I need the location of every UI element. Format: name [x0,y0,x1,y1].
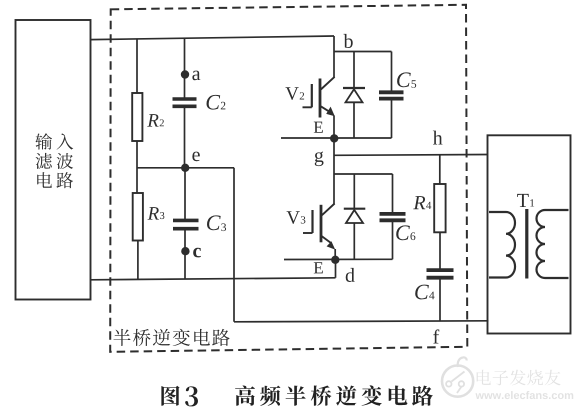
label f [433,329,439,343]
capacitor C3 [173,168,199,280]
freewheel diode of V3 [344,174,366,259]
label g [315,152,324,167]
wire: V3 collector rail [334,173,393,175]
node a junction dot [181,70,189,78]
label C3 [207,215,226,231]
node c junction dot [181,247,189,255]
caption text 图3 高频半桥逆变电路 [161,385,432,406]
label e [192,152,199,162]
transformer T1 secondary winding [537,210,569,278]
label C4 [415,285,434,300]
resistor R2 [132,39,142,193]
resistor R4 [434,155,445,270]
wire: node f line to transformer bottom [234,321,489,322]
transistor V3 (IGBT) [303,204,335,260]
label b [344,34,353,48]
label C6 [396,225,415,240]
wire: node d stub to bottom bus [335,259,337,277]
wire: node b rail [334,51,392,53]
label d [346,268,355,282]
label C5 [397,72,416,87]
transformer T1 core [525,209,528,279]
capacitor C4 [427,270,454,321]
label E (V3 emitter) [314,262,323,273]
label h [433,131,443,145]
capacitor C6 [380,174,406,259]
label a [192,71,200,81]
wire: V2 emitter rail with drive stub [281,137,392,139]
node E of V2 junction dot [330,134,338,142]
wire: node e horizontal link [137,167,234,169]
wire: node g to node h line to transformer [334,154,488,157]
label R2 [147,114,164,126]
label C2 [207,95,226,110]
half-bridge inverter dashed enclosure [110,5,467,352]
label R3 [147,207,164,219]
capacitor C5 [379,52,404,139]
label c [193,248,201,258]
label R4 [413,196,431,209]
node d junction dot [331,256,339,264]
freewheel diode of V2 [343,52,365,139]
wire: midpoint link V2 emitter to V3 collector [333,138,335,204]
wire: bottom bus from filter block to node d stub [91,278,336,280]
label V2 [285,87,304,100]
label V3 [287,211,306,224]
wire: V3 emitter rail with drive stub [284,258,393,260]
wire: node e branch down to node f line [233,168,235,322]
enclosure label 半桥逆变电路 [113,329,229,346]
transformer T1 primary winding [489,212,515,278]
label E (V2 emitter) [314,122,323,133]
capacitor C2 [173,38,197,168]
watermark logo (decorative) [442,357,573,399]
transformer T1 block [488,135,571,333]
resistor R3 [133,193,143,279]
transistor V2 (IGBT) [303,36,335,138]
label T1 [517,194,534,207]
input filter block 输入滤波电路 [16,20,91,300]
wire: top bus from filter block to V2 collector [91,36,335,40]
node e junction dot [181,164,189,172]
